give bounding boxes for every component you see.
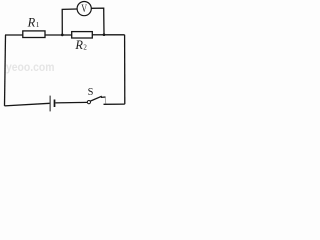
wire right vertical — [124, 35, 126, 104]
switch S fixed contact — [101, 96, 106, 98]
svg-text:yeoo.com: yeoo.com — [6, 60, 55, 74]
switch S pivot circle — [87, 101, 90, 104]
battery BT1 long plate (positive) — [49, 96, 51, 112]
wire top-left horizontal — [5, 34, 23, 36]
voltmeter U1 circle — [77, 2, 91, 16]
node B (junction dot right) — [103, 33, 106, 36]
resistor R1 — [23, 31, 45, 38]
wire R2 to node B — [92, 34, 104, 36]
battery BT1 short plate (negative) — [54, 100, 56, 108]
wire contact down to bottom wire — [104, 97, 107, 104]
svg-text:V: V — [81, 3, 87, 15]
wire switch to battery — [55, 101, 87, 104]
svg-text:R: R — [74, 38, 83, 52]
svg-text:1: 1 — [36, 21, 40, 29]
wire voltmeter right to corner and down to node B — [91, 8, 104, 35]
wire R1 to node A — [45, 34, 62, 36]
wire voltmeter branch left vertical — [62, 9, 77, 35]
resistor R2 — [72, 32, 93, 38]
node A (junction dot left) — [61, 34, 64, 37]
switch S blade — [90, 96, 102, 101]
wire battery to bottom-left corner — [5, 103, 50, 106]
wire node B to top-right corner — [104, 34, 125, 36]
wire left vertical — [5, 35, 6, 106]
svg-text:R: R — [27, 16, 36, 30]
wire node A to R2 — [62, 34, 71, 36]
svg-text:2: 2 — [83, 43, 87, 51]
svg-text:S: S — [88, 87, 94, 98]
wire bottom-right horizontal — [104, 103, 125, 105]
